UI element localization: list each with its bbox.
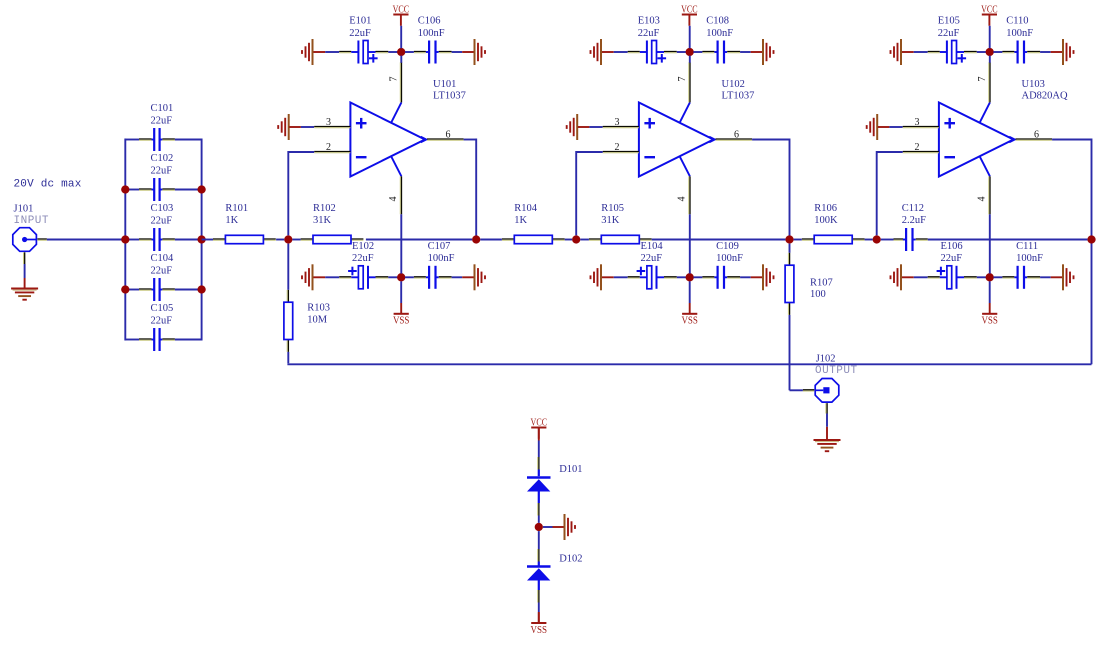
- capacitor E105: [928, 41, 977, 64]
- wire: [826, 414, 828, 440]
- wire: [202, 239, 213, 241]
- wire: [388, 51, 397, 53]
- label C104 22uF: [151, 253, 175, 276]
- wire: [287, 352, 289, 363]
- label C108 100nF: [706, 16, 733, 39]
- svg-text:3: 3: [915, 117, 920, 128]
- wire: [125, 339, 139, 341]
- svg-text:R101: R101: [225, 203, 248, 214]
- capacitor C110: [1002, 41, 1040, 64]
- connector J101: [13, 228, 47, 264]
- pin 4: [676, 157, 690, 274]
- label R104 1K: [514, 203, 538, 226]
- wire: [1091, 139, 1093, 365]
- svg-text:AD820AQ: AD820AQ: [1022, 91, 1068, 102]
- wire: [47, 239, 125, 241]
- label E102 22uF: [352, 241, 374, 264]
- svg-text:R107: R107: [810, 278, 833, 289]
- ground: [11, 289, 38, 300]
- wire: [740, 51, 751, 53]
- label C111 100nF: [1016, 241, 1043, 264]
- pin 6: [1009, 129, 1052, 142]
- power VCC: [681, 4, 698, 48]
- wire: [1052, 139, 1091, 141]
- pin 3: [903, 117, 939, 128]
- svg-text:22uF: 22uF: [151, 265, 173, 276]
- svg-text:R102: R102: [313, 203, 336, 214]
- svg-text:E101: E101: [349, 16, 371, 27]
- wire: [287, 244, 289, 290]
- op-amp U101: [314, 56, 463, 274]
- note 20V dc max: [14, 179, 82, 191]
- svg-text:C108: C108: [706, 16, 729, 27]
- svg-text:7: 7: [388, 77, 399, 82]
- svg-text:22uF: 22uF: [151, 315, 173, 326]
- ground: [591, 39, 602, 65]
- wire: [405, 276, 414, 278]
- capacitor E101: [339, 41, 388, 64]
- resistor R101: [213, 235, 276, 243]
- label J101 INPUT: [14, 204, 50, 228]
- svg-text:100K: 100K: [814, 215, 838, 226]
- wire: [977, 276, 986, 278]
- label R102 31K: [313, 203, 336, 226]
- svg-text:100nF: 100nF: [1016, 253, 1043, 264]
- junction: [1087, 235, 1095, 243]
- svg-text:J102: J102: [816, 354, 836, 365]
- label J102 OUTPUT: [815, 354, 858, 378]
- svg-text:6: 6: [446, 129, 451, 140]
- label R106 100K: [814, 203, 838, 226]
- junction: [121, 185, 129, 193]
- label C101 22uF: [151, 103, 174, 126]
- wire: [475, 139, 477, 240]
- junction: [472, 235, 480, 243]
- capacitor C111: [1002, 266, 1040, 289]
- power VSS: [531, 612, 548, 636]
- wire: [576, 151, 603, 235]
- wire: [405, 51, 414, 53]
- wire: [740, 276, 751, 278]
- power VSS: [681, 281, 698, 326]
- resistor R106: [802, 235, 865, 243]
- junction: [197, 185, 205, 193]
- ground: [278, 114, 289, 140]
- capacitor C106: [414, 41, 452, 64]
- ground: [567, 114, 578, 140]
- junction: [197, 285, 205, 293]
- wire: [790, 315, 803, 390]
- svg-text:D101: D101: [559, 464, 582, 475]
- wire: [977, 51, 986, 53]
- svg-text:22uF: 22uF: [638, 28, 660, 39]
- ground: [1051, 39, 1074, 65]
- svg-text:22uF: 22uF: [941, 253, 963, 264]
- wire: [794, 239, 802, 241]
- ground: [302, 264, 313, 290]
- ground: [462, 39, 485, 65]
- label E106 22uF: [941, 241, 963, 264]
- wire: [993, 51, 1002, 53]
- label C112 2.2uF: [902, 203, 926, 226]
- wire: [693, 51, 702, 53]
- svg-text:D102: D102: [559, 554, 582, 565]
- capacitor E102: [339, 266, 388, 289]
- label U103 AD820AQ: [1022, 79, 1068, 102]
- wire: [452, 276, 463, 278]
- pin 2: [314, 142, 350, 153]
- wire: [993, 276, 1002, 278]
- ground: [302, 39, 313, 65]
- svg-text:C107: C107: [428, 241, 451, 252]
- capacitor C103: [139, 228, 175, 251]
- wire: [538, 531, 540, 549]
- svg-text:R103: R103: [307, 302, 330, 313]
- pin 4: [976, 157, 990, 274]
- junction: [873, 235, 881, 243]
- junction: [397, 48, 405, 56]
- svg-text:100nF: 100nF: [428, 253, 455, 264]
- svg-text:2: 2: [326, 142, 331, 153]
- wire: [928, 239, 1088, 241]
- connector J102: [803, 379, 839, 414]
- resistor R107: [785, 244, 794, 315]
- svg-text:C111: C111: [1016, 241, 1038, 252]
- capacitor C102: [139, 178, 175, 201]
- svg-text:R106: R106: [814, 203, 837, 214]
- diode D101: [527, 457, 551, 516]
- wire: [602, 276, 628, 278]
- svg-text:C112: C112: [902, 203, 924, 214]
- svg-text:22uF: 22uF: [938, 28, 960, 39]
- pin 3: [603, 117, 639, 128]
- pin 7: [977, 56, 990, 123]
- wire: [175, 289, 202, 291]
- capacitor E103: [628, 41, 677, 64]
- label C107 100nF: [428, 241, 455, 264]
- wire: [480, 239, 502, 241]
- ground: [891, 264, 902, 290]
- svg-text:3: 3: [326, 117, 331, 128]
- svg-text:4: 4: [976, 197, 987, 202]
- wire: [464, 139, 477, 141]
- svg-text:C110: C110: [1006, 16, 1028, 27]
- ground: [751, 39, 774, 65]
- wire: [289, 126, 314, 128]
- svg-text:E104: E104: [641, 241, 664, 252]
- capacitor C112: [881, 228, 928, 251]
- pin 2: [903, 142, 939, 153]
- svg-text:VSS: VSS: [681, 316, 698, 327]
- capacitor C101: [139, 128, 175, 151]
- svg-text:E102: E102: [352, 241, 374, 252]
- label R103 10M: [307, 302, 330, 325]
- wire: [175, 139, 202, 141]
- capacitor C107: [414, 266, 452, 289]
- pin 6: [709, 129, 752, 142]
- svg-text:22uF: 22uF: [151, 115, 173, 126]
- wire: [125, 189, 139, 191]
- wire: [602, 51, 628, 53]
- junction: [572, 235, 580, 243]
- wire: [580, 239, 589, 241]
- capacitor E104: [628, 266, 677, 289]
- power VSS: [393, 281, 410, 326]
- wire: [125, 239, 139, 241]
- label E101 22uF: [349, 16, 371, 39]
- wire: [287, 363, 1091, 365]
- wire: [902, 51, 928, 53]
- ground: [891, 39, 902, 65]
- svg-text:2.2uF: 2.2uF: [902, 215, 926, 226]
- svg-text:U102: U102: [722, 79, 745, 90]
- wire: [314, 51, 340, 53]
- svg-text:4: 4: [388, 197, 399, 202]
- power VCC: [531, 417, 548, 440]
- wire: [693, 276, 702, 278]
- wire: [452, 51, 463, 53]
- svg-text:2: 2: [915, 142, 920, 153]
- wire: [314, 276, 340, 278]
- ground: [462, 264, 485, 290]
- wire: [125, 289, 139, 291]
- label C102 22uF: [151, 153, 174, 176]
- svg-text:VSS: VSS: [393, 316, 410, 327]
- svg-text:100nF: 100nF: [706, 28, 733, 39]
- svg-text:4: 4: [676, 197, 687, 202]
- junction: [686, 273, 694, 281]
- svg-text:C101: C101: [151, 103, 174, 114]
- wire: [175, 339, 202, 341]
- wire: [677, 51, 686, 53]
- label E104 22uF: [641, 241, 664, 264]
- svg-text:100: 100: [810, 289, 826, 300]
- label D102: [559, 554, 582, 565]
- wire: [902, 276, 928, 278]
- wire: [1040, 276, 1051, 278]
- wire: [565, 239, 572, 241]
- capacitor C104: [139, 278, 175, 301]
- op-amp U102: [603, 56, 752, 274]
- wire: [125, 139, 139, 141]
- label D101: [559, 464, 582, 475]
- svg-text:R105: R105: [601, 203, 624, 214]
- svg-text:U101: U101: [433, 79, 456, 90]
- svg-text:U103: U103: [1022, 79, 1045, 90]
- label C103 22uF: [151, 203, 174, 226]
- junction: [986, 48, 994, 56]
- svg-text:22uF: 22uF: [349, 28, 371, 39]
- wire: [752, 139, 789, 141]
- wire: [366, 239, 472, 241]
- label C109 100nF: [716, 241, 743, 264]
- svg-text:INPUT: INPUT: [14, 215, 50, 227]
- wire: [877, 151, 903, 235]
- ground: [751, 264, 774, 290]
- wire: [538, 603, 540, 613]
- label U101 LT1037: [433, 79, 466, 102]
- capacitor E106: [928, 266, 977, 289]
- label E103 22uF: [638, 16, 660, 39]
- junction: [986, 273, 994, 281]
- wire: [878, 126, 903, 128]
- svg-text:OUTPUT: OUTPUT: [815, 365, 858, 377]
- wire: [276, 239, 284, 241]
- svg-text:C104: C104: [151, 253, 175, 264]
- wire: [124, 139, 126, 341]
- pin 6: [421, 129, 464, 142]
- pin 7: [677, 56, 690, 123]
- svg-text:6: 6: [734, 129, 739, 140]
- pin 4: [388, 157, 402, 274]
- junction: [121, 235, 129, 243]
- svg-text:1K: 1K: [225, 215, 238, 226]
- label R101 1K: [225, 203, 248, 226]
- svg-text:22uF: 22uF: [151, 215, 173, 226]
- junction: [535, 523, 543, 531]
- resistor R105: [589, 235, 652, 243]
- junction: [284, 235, 292, 243]
- svg-text:10M: 10M: [307, 314, 328, 325]
- svg-text:100nF: 100nF: [418, 28, 445, 39]
- svg-text:E106: E106: [941, 241, 963, 252]
- svg-text:3: 3: [615, 117, 620, 128]
- wire: [1040, 51, 1051, 53]
- svg-text:20V dc max: 20V dc max: [14, 179, 82, 191]
- wire: [865, 239, 873, 241]
- ground: [1051, 264, 1074, 290]
- svg-text:7: 7: [977, 77, 988, 82]
- label U102 LT1037: [722, 79, 755, 102]
- label C106 100nF: [418, 16, 445, 39]
- power VCC: [981, 4, 998, 48]
- svg-text:22uF: 22uF: [352, 253, 374, 264]
- svg-text:E103: E103: [638, 16, 660, 27]
- svg-text:31K: 31K: [313, 215, 332, 226]
- svg-text:C102: C102: [151, 153, 174, 164]
- svg-text:LT1037: LT1037: [433, 91, 466, 102]
- svg-text:C105: C105: [151, 303, 174, 314]
- wire: [789, 139, 791, 240]
- power VSS: [981, 281, 998, 326]
- svg-text:C106: C106: [418, 16, 441, 27]
- wire: [388, 276, 397, 278]
- diode D102: [527, 549, 551, 603]
- junction: [197, 235, 205, 243]
- svg-text:6: 6: [1034, 129, 1039, 140]
- svg-text:LT1037: LT1037: [722, 91, 755, 102]
- svg-text:VSS: VSS: [531, 625, 548, 636]
- wire: [677, 276, 686, 278]
- label C110 100nF: [1006, 16, 1033, 39]
- wire: [175, 189, 202, 191]
- svg-text:100nF: 100nF: [1006, 28, 1033, 39]
- label R105 31K: [601, 203, 624, 226]
- capacitor C108: [702, 41, 740, 64]
- resistor R103: [284, 290, 293, 352]
- ground: [867, 114, 878, 140]
- junction: [785, 235, 793, 243]
- svg-text:C109: C109: [716, 241, 739, 252]
- wire: [538, 441, 540, 458]
- pin 7: [388, 56, 401, 123]
- junction: [397, 273, 405, 281]
- svg-text:7: 7: [677, 77, 688, 82]
- svg-text:J101: J101: [14, 204, 34, 215]
- wire: [288, 151, 314, 235]
- wire: [538, 516, 540, 523]
- resistor R104: [502, 235, 565, 243]
- svg-text:2: 2: [615, 142, 620, 153]
- label E105 22uF: [938, 16, 960, 39]
- label R107 100: [810, 278, 833, 301]
- ground: [814, 440, 841, 451]
- capacitor C105: [139, 328, 175, 351]
- pin 2: [603, 142, 639, 153]
- svg-text:VSS: VSS: [981, 316, 998, 327]
- op-amp U103: [903, 56, 1052, 274]
- svg-text:100nF: 100nF: [716, 253, 743, 264]
- ground: [591, 264, 602, 290]
- junction: [121, 285, 129, 293]
- wire: [652, 239, 786, 241]
- wire: [24, 264, 26, 288]
- svg-text:31K: 31K: [601, 215, 620, 226]
- junction: [686, 48, 694, 56]
- power VCC: [393, 4, 410, 48]
- ground: [553, 514, 576, 540]
- resistor R102: [301, 235, 364, 243]
- wire: [292, 239, 300, 241]
- wire: [578, 126, 603, 128]
- wire: [543, 526, 553, 528]
- pin 3: [314, 117, 350, 128]
- svg-text:R104: R104: [514, 203, 538, 214]
- svg-text:1K: 1K: [514, 215, 527, 226]
- wire: [175, 239, 202, 241]
- wire: [201, 139, 203, 341]
- svg-text:E105: E105: [938, 16, 960, 27]
- label C105 22uF: [151, 303, 174, 326]
- svg-text:22uF: 22uF: [641, 253, 663, 264]
- svg-text:22uF: 22uF: [151, 165, 173, 176]
- capacitor C109: [702, 266, 740, 289]
- svg-text:C103: C103: [151, 203, 174, 214]
